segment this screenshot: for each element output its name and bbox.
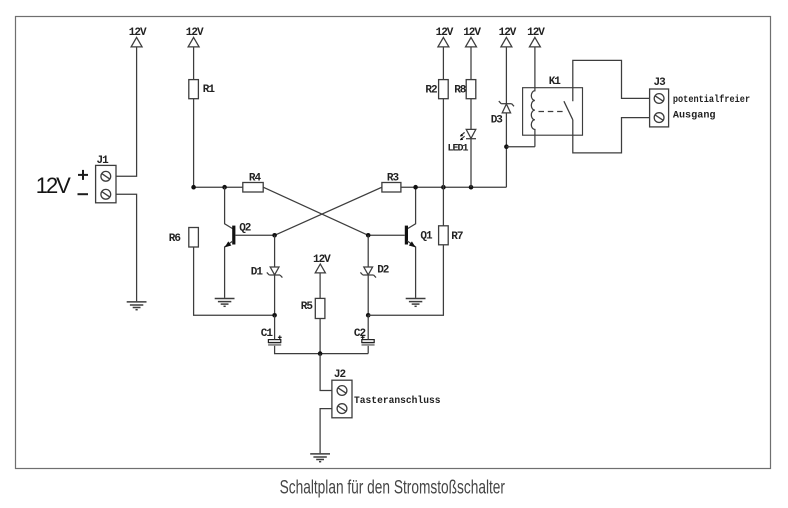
wire main bus right bbox=[401, 186, 507, 188]
resistor R6 bbox=[189, 228, 199, 248]
svg-text:D2: D2 bbox=[377, 265, 389, 277]
wire 12V arrow to D3 bbox=[505, 47, 507, 104]
diode D2 (zener) bbox=[360, 267, 376, 278]
svg-text:12V: 12V bbox=[186, 27, 204, 39]
capacitor C1 bbox=[268, 335, 282, 344]
wire right lower bus to R7 bbox=[368, 245, 443, 315]
wire D2 to right lower bus bbox=[367, 275, 369, 315]
svg-text:C2: C2 bbox=[354, 328, 366, 340]
svg-text:R4: R4 bbox=[249, 173, 262, 185]
resistor R7 bbox=[439, 226, 449, 245]
wire R1 to bus bbox=[193, 99, 195, 188]
svg-text:LED1: LED1 bbox=[448, 144, 469, 155]
relay K1 switch blade bbox=[564, 101, 573, 120]
wire D3 to bus corner bbox=[505, 113, 507, 187]
svg-text:R8: R8 bbox=[454, 85, 467, 97]
wire LED1 to bus bbox=[470, 139, 472, 188]
supply arrow 12V (J1 column) bbox=[131, 37, 142, 47]
wire R5 to lower bus bbox=[319, 319, 321, 354]
svg-text:Schaltplan für den Stromstoßsc: Schaltplan für den Stromstoßschalter bbox=[280, 478, 506, 499]
svg-text:Tasteranschluss: Tasteranschluss bbox=[354, 395, 441, 407]
svg-text:J1: J1 bbox=[96, 155, 109, 167]
svg-text:R3: R3 bbox=[387, 173, 400, 185]
minus mark (J1) bbox=[78, 193, 89, 195]
svg-text:R2: R2 bbox=[425, 85, 437, 97]
svg-text:R1: R1 bbox=[203, 84, 216, 96]
plus mark (J1) bbox=[78, 170, 88, 180]
svg-text:R5: R5 bbox=[301, 301, 314, 313]
svg-text:D3: D3 bbox=[491, 115, 504, 127]
wire R6 to left lower bus bbox=[194, 247, 275, 315]
wire C1 bottom to lower bus bbox=[275, 346, 369, 354]
ground (J1) bbox=[127, 302, 147, 310]
capacitor C2 bbox=[361, 335, 375, 344]
svg-text:12V: 12V bbox=[499, 27, 517, 39]
svg-text:potentialfreier: potentialfreier bbox=[673, 94, 750, 106]
wire 12V arrow to R1 bbox=[193, 47, 195, 80]
svg-text:Q1: Q1 bbox=[420, 230, 433, 242]
ground (Q1 emitter) bbox=[406, 299, 426, 307]
connector J2 bbox=[332, 380, 352, 418]
wire Q2 base node to D1 bbox=[274, 235, 276, 266]
node R1/R6/bus bbox=[191, 185, 196, 190]
wire Q1 base node to D2 bbox=[367, 235, 369, 266]
svg-text:J3: J3 bbox=[653, 77, 666, 89]
ground (Q2 emitter) bbox=[215, 299, 235, 307]
diode D1 (zener) bbox=[267, 267, 283, 278]
supply arrow 12V (R8 column) bbox=[466, 37, 477, 47]
svg-text:C1: C1 bbox=[261, 328, 274, 340]
wire R2 to bus bbox=[442, 99, 444, 188]
svg-text:12V: 12V bbox=[313, 254, 331, 266]
relay K1 box bbox=[523, 88, 583, 136]
connector J1 bbox=[96, 165, 116, 202]
wire D1 to left lower bus bbox=[274, 275, 276, 315]
supply arrow 12V (K1 column) bbox=[529, 37, 540, 47]
wire 12V arrow to R8 bbox=[470, 47, 472, 80]
svg-text:R7: R7 bbox=[451, 231, 463, 243]
wire J1 pin2 to ground bbox=[116, 194, 137, 301]
node R5/J2/bus bbox=[318, 351, 323, 356]
transistor Q1 bbox=[368, 187, 415, 298]
svg-text:Q2: Q2 bbox=[239, 223, 251, 235]
wire C2 bottom to lower bus bbox=[367, 346, 369, 354]
svg-text:12V: 12V bbox=[36, 173, 71, 198]
svg-text:Ausgang: Ausgang bbox=[673, 111, 716, 122]
wire C1 top bbox=[274, 315, 276, 339]
node Q2 base bbox=[272, 233, 277, 238]
wire R7 to bus bbox=[442, 187, 444, 226]
svg-text:12V: 12V bbox=[463, 27, 481, 39]
svg-text:K1: K1 bbox=[549, 76, 562, 88]
node Q2 collector/bus bbox=[222, 185, 227, 190]
svg-text:J2: J2 bbox=[334, 369, 346, 381]
resistor R1 bbox=[189, 80, 199, 99]
supply arrow 12V (R2 column) bbox=[438, 37, 449, 47]
ground (J2) bbox=[310, 454, 330, 462]
diode D3 (zener, pointing up) bbox=[499, 101, 514, 113]
wire J1 pin1 to 12V arrow bbox=[116, 47, 137, 176]
resistor R8 bbox=[466, 80, 476, 99]
resistor R5 bbox=[315, 298, 325, 318]
wire 12V arrow to R5 bbox=[319, 273, 321, 299]
node LED1/bus bbox=[469, 185, 474, 190]
supply arrow 12V (R1 column) bbox=[188, 37, 199, 47]
wire R8 to LED1 bbox=[470, 99, 472, 130]
relay K1 bottom contact wire to J3 pin2 bbox=[573, 118, 650, 153]
svg-text:D1: D1 bbox=[251, 267, 264, 279]
wire J2 pin1 feed bbox=[320, 354, 332, 391]
svg-text:12V: 12V bbox=[436, 27, 454, 39]
wire R4 to Q1 base node (diagonal) bbox=[263, 187, 368, 235]
wire D3 node to K1 coil bbox=[506, 146, 535, 148]
resistor R3 bbox=[382, 183, 401, 193]
node Q1 base bbox=[366, 233, 371, 238]
relay K1 actuation dashed link bbox=[539, 111, 565, 113]
wire R3 to Q2 base node (diagonal) bbox=[275, 187, 382, 235]
relay K1 top contact wire to J3 pin1 bbox=[573, 60, 650, 101]
resistor R2 bbox=[439, 80, 449, 99]
connector J3 bbox=[650, 89, 669, 127]
svg-text:R6: R6 bbox=[169, 233, 181, 245]
node Q1 collector/bus bbox=[413, 185, 418, 190]
supply arrow 12V (R5 column) bbox=[315, 264, 325, 273]
resistor R4 bbox=[243, 183, 263, 193]
node D2/C2/bus bbox=[366, 313, 371, 318]
node D3/K1 coil bbox=[504, 144, 509, 149]
wire C2 top bbox=[367, 315, 369, 339]
relay K1 coil bbox=[531, 47, 535, 147]
svg-text:12V: 12V bbox=[527, 27, 545, 39]
LED LED1 bbox=[460, 129, 476, 140]
transistor Q2 bbox=[225, 187, 275, 298]
wire main bus left bbox=[194, 186, 243, 188]
node R2/R7/bus bbox=[441, 185, 446, 190]
wire J2 pin2 to ground bbox=[320, 409, 332, 454]
node D1/C1/bus bbox=[272, 313, 277, 318]
supply arrow 12V (D3 column) bbox=[501, 37, 512, 47]
wire 12V arrow to R2 bbox=[442, 47, 444, 80]
svg-text:12V: 12V bbox=[129, 27, 147, 39]
